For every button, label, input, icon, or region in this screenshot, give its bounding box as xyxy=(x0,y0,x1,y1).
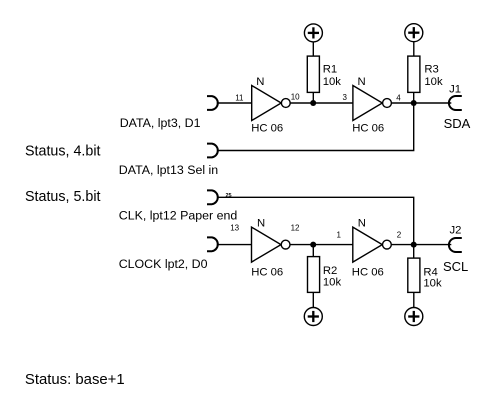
connector lpt2 D0 xyxy=(207,237,218,251)
connector lpt13 Sel in xyxy=(207,144,218,158)
wire R4 to power xyxy=(413,292,415,307)
wire U1B out to J1 xyxy=(391,102,451,104)
svg-text:10k: 10k xyxy=(423,278,442,290)
junction node R3 xyxy=(411,100,417,106)
svg-text:1: 1 xyxy=(337,230,342,239)
svg-text:Status, 5.bit: Status, 5.bit xyxy=(25,189,101,205)
svg-text:SDA: SDA xyxy=(444,116,471,131)
power symbol P1 xyxy=(304,24,322,42)
inverter U1B bubble xyxy=(383,99,392,108)
svg-text:2: 2 xyxy=(397,230,402,239)
svg-text:SCL: SCL xyxy=(443,259,468,274)
svg-text:CLOCK lpt2, D0: CLOCK lpt2, D0 xyxy=(119,257,208,271)
resistor R1 xyxy=(307,56,319,92)
svg-text:CLK, lpt12 Paper end: CLK, lpt12 Paper end xyxy=(119,208,238,222)
power symbol P3 xyxy=(304,308,322,326)
power symbol P4 xyxy=(405,308,423,326)
wire lpt12 to node R4 xyxy=(217,197,414,244)
svg-text:N: N xyxy=(256,76,264,88)
svg-text:HC 06: HC 06 xyxy=(352,123,384,135)
svg-text:25: 25 xyxy=(226,193,232,199)
wire U1D out to J2 xyxy=(391,244,451,246)
inverter U1C bubble xyxy=(281,240,290,249)
svg-text:3: 3 xyxy=(343,93,348,102)
junction node R4 xyxy=(411,242,417,248)
wire node R3 down to lpt13 line xyxy=(217,103,414,151)
connector lpt12 Paper end xyxy=(207,190,218,204)
inverter U1A triangle xyxy=(252,86,282,121)
resistor R3 xyxy=(408,56,420,92)
wire input to U1C xyxy=(217,244,252,246)
svg-text:4: 4 xyxy=(396,94,401,103)
svg-text:N: N xyxy=(358,76,366,88)
wire U1C out to node R2 xyxy=(290,244,353,246)
power symbol P2 xyxy=(405,24,423,42)
svg-text:N: N xyxy=(358,218,366,230)
svg-text:J1: J1 xyxy=(449,83,461,95)
svg-text:Status: base+1: Status: base+1 xyxy=(25,372,125,388)
svg-text:12: 12 xyxy=(291,224,300,233)
svg-text:Status, 4.bit: Status, 4.bit xyxy=(25,144,101,160)
svg-text:DATA, lpt3, D1: DATA, lpt3, D1 xyxy=(120,116,201,130)
svg-text:11: 11 xyxy=(235,93,244,102)
resistor R4 xyxy=(408,258,420,292)
connector J2 xyxy=(449,238,462,252)
wire U1A out to node R1 xyxy=(290,102,353,104)
svg-text:10k: 10k xyxy=(424,76,443,88)
connector J1 xyxy=(449,96,462,110)
connector lpt3 D1 input xyxy=(207,96,218,110)
svg-text:HC 06: HC 06 xyxy=(352,266,384,278)
svg-text:R3: R3 xyxy=(424,64,438,76)
junction node R1 xyxy=(310,100,316,106)
inverter U1D bubble xyxy=(383,240,392,249)
inverter U1C triangle xyxy=(252,227,282,262)
wire R2 to power xyxy=(312,292,314,307)
svg-text:10k: 10k xyxy=(323,76,342,88)
wire node to R1 xyxy=(312,92,314,103)
svg-text:J2: J2 xyxy=(450,225,462,237)
wire node to R4 xyxy=(413,245,415,259)
inverter U1A bubble xyxy=(281,99,290,108)
inverter U1B triangle xyxy=(353,86,383,121)
junction node R2 xyxy=(310,242,316,248)
svg-text:HC 06: HC 06 xyxy=(251,123,283,135)
svg-text:HC 06: HC 06 xyxy=(251,266,283,278)
wire node to R3 xyxy=(413,92,415,103)
svg-text:N: N xyxy=(257,218,265,230)
svg-text:10k: 10k xyxy=(323,276,342,288)
svg-text:10: 10 xyxy=(291,93,300,102)
svg-text:R1: R1 xyxy=(323,64,337,76)
svg-text:13: 13 xyxy=(230,224,239,233)
wire node to R2 xyxy=(312,245,314,257)
wire input to U1A xyxy=(217,102,252,104)
svg-text:R2: R2 xyxy=(323,265,337,277)
svg-text:R4: R4 xyxy=(423,267,437,279)
resistor R2 xyxy=(308,257,320,293)
wire R3 to power xyxy=(413,42,415,56)
wire R1 to power xyxy=(312,42,314,56)
svg-text:DATA, lpt13 Sel in: DATA, lpt13 Sel in xyxy=(119,163,219,177)
inverter U1D triangle xyxy=(353,227,383,262)
